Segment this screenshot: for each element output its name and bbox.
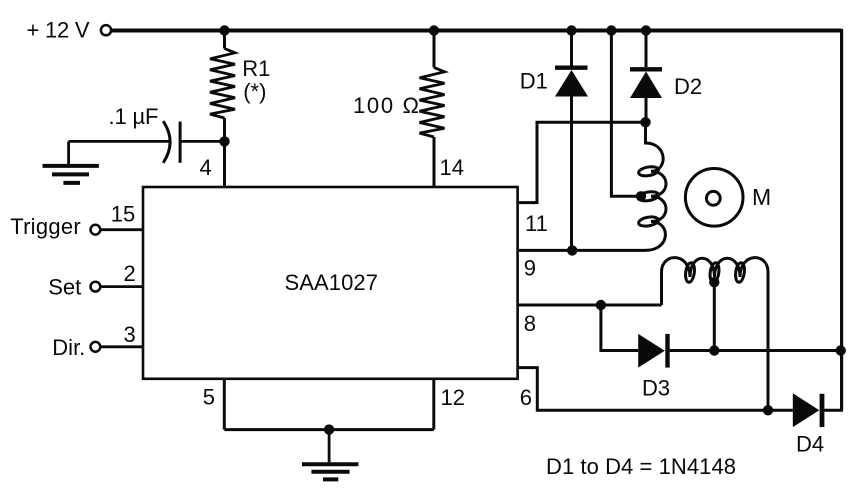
svg-text:SAA1027: SAA1027 bbox=[285, 270, 379, 295]
node +12V terminal bbox=[101, 25, 111, 35]
inductor L2 motor winding 2 (horizontal coil) bbox=[662, 258, 769, 411]
wire R1 top lead bbox=[223, 31, 226, 49]
motor M inner circle bbox=[706, 191, 720, 205]
node junction coil2 center tap bbox=[709, 277, 719, 287]
node ground junction bbox=[324, 424, 334, 434]
svg-text:D2: D2 bbox=[674, 74, 702, 99]
node junction tap/D3 row bbox=[709, 345, 719, 355]
diode D4 bbox=[793, 393, 822, 427]
node junction rail/D2 bbox=[641, 25, 651, 35]
resistor 100 ohm bbox=[420, 68, 445, 138]
svg-text:Trigger: Trigger bbox=[10, 214, 81, 239]
wire 100ohm bottom lead to pin 14 bbox=[433, 137, 436, 187]
svg-text:4: 4 bbox=[200, 155, 212, 180]
ground left symbol bbox=[43, 141, 99, 183]
wire pin8 junction down to D3 bbox=[601, 305, 638, 351]
wire pin 11 route bbox=[518, 122, 646, 202]
wire pin 6 route bbox=[518, 368, 793, 411]
node junction pin8/D3 branch bbox=[596, 300, 606, 310]
resistor R1 bbox=[210, 49, 235, 119]
svg-text:6: 6 bbox=[520, 385, 532, 410]
inductor L1 motor winding 1 (vertical coil) bbox=[638, 122, 666, 250]
node junction rail/D1 bbox=[566, 25, 576, 35]
node Dir terminal bbox=[91, 342, 101, 352]
wire pin 8 row bbox=[518, 304, 662, 307]
capacitor C1 straight plate bbox=[179, 122, 182, 163]
wire coil2 tap down to D3 row bbox=[713, 282, 716, 350]
wire trigger to pin 15 bbox=[101, 228, 143, 231]
svg-text:2: 2 bbox=[124, 261, 136, 286]
node Set terminal bbox=[91, 282, 101, 292]
wire pin 12 down bbox=[432, 379, 435, 430]
node junction pin11/D2/coil1 bbox=[640, 117, 650, 127]
svg-text:D4: D4 bbox=[796, 432, 824, 457]
svg-text:(*): (*) bbox=[243, 79, 266, 104]
svg-text:12: 12 bbox=[441, 385, 465, 410]
node junction pin9/D1 bbox=[567, 245, 577, 255]
diode D3 bbox=[638, 334, 841, 368]
svg-text:.1 µF: .1 µF bbox=[109, 104, 159, 129]
node Trigger terminal bbox=[91, 225, 101, 235]
wire center tap vertical from rail bbox=[611, 31, 641, 197]
node junction cap/R1/pin4 bbox=[219, 136, 229, 146]
svg-text:Set: Set bbox=[48, 275, 81, 300]
capacitor C1 .1uF curved plate bbox=[163, 121, 170, 163]
diode D2 bbox=[630, 31, 662, 123]
wire 100ohm top lead bbox=[433, 31, 436, 68]
wire R1 bottom lead to pin 4 bbox=[223, 118, 226, 187]
svg-text:D1: D1 bbox=[520, 69, 548, 94]
node junction rail/100ohm bbox=[429, 25, 439, 35]
svg-text:Dir.: Dir. bbox=[52, 335, 85, 360]
diode D1 bbox=[555, 31, 588, 251]
wire dir to pin 3 bbox=[101, 345, 143, 348]
node junction rail/centertap line bbox=[606, 25, 616, 35]
wire pin 9 row bbox=[518, 249, 646, 252]
svg-text:5: 5 bbox=[203, 385, 215, 410]
wire top supply rail bbox=[112, 29, 842, 33]
svg-text:M: M bbox=[752, 184, 771, 210]
svg-text:D1 to D4 = 1N4148: D1 to D4 = 1N4148 bbox=[546, 454, 736, 479]
wire ground row bbox=[224, 428, 433, 431]
svg-text:15: 15 bbox=[111, 202, 135, 227]
svg-text:100 Ω: 100 Ω bbox=[353, 93, 419, 118]
node junction D3 row / right rail bbox=[836, 345, 846, 355]
svg-text:9: 9 bbox=[524, 256, 536, 281]
svg-text:8: 8 bbox=[524, 311, 536, 336]
svg-text:14: 14 bbox=[440, 155, 464, 180]
ground bottom symbol bbox=[302, 430, 358, 480]
wire capacitor to pin4 junction bbox=[180, 140, 224, 143]
node junction rail/R1 bbox=[219, 25, 229, 35]
wire pin 5 down bbox=[223, 379, 226, 430]
op-amp: IC U1 SAA1027 box bbox=[143, 187, 518, 379]
node junction coil1 center tap bbox=[636, 191, 646, 201]
svg-text:R1: R1 bbox=[242, 56, 270, 81]
svg-text:3: 3 bbox=[124, 322, 136, 347]
wire ground to capacitor bbox=[69, 140, 169, 143]
wire set to pin 2 bbox=[101, 285, 143, 288]
wire right vertical rail bbox=[840, 29, 843, 410]
wire rail to D4 cathode bbox=[823, 409, 844, 412]
svg-text:+ 12 V: + 12 V bbox=[27, 18, 90, 43]
motor M circle bbox=[685, 169, 743, 227]
svg-text:11: 11 bbox=[525, 211, 548, 236]
svg-text:D3: D3 bbox=[642, 376, 670, 401]
node junction coil2 right lead / pin6 row bbox=[763, 405, 773, 415]
